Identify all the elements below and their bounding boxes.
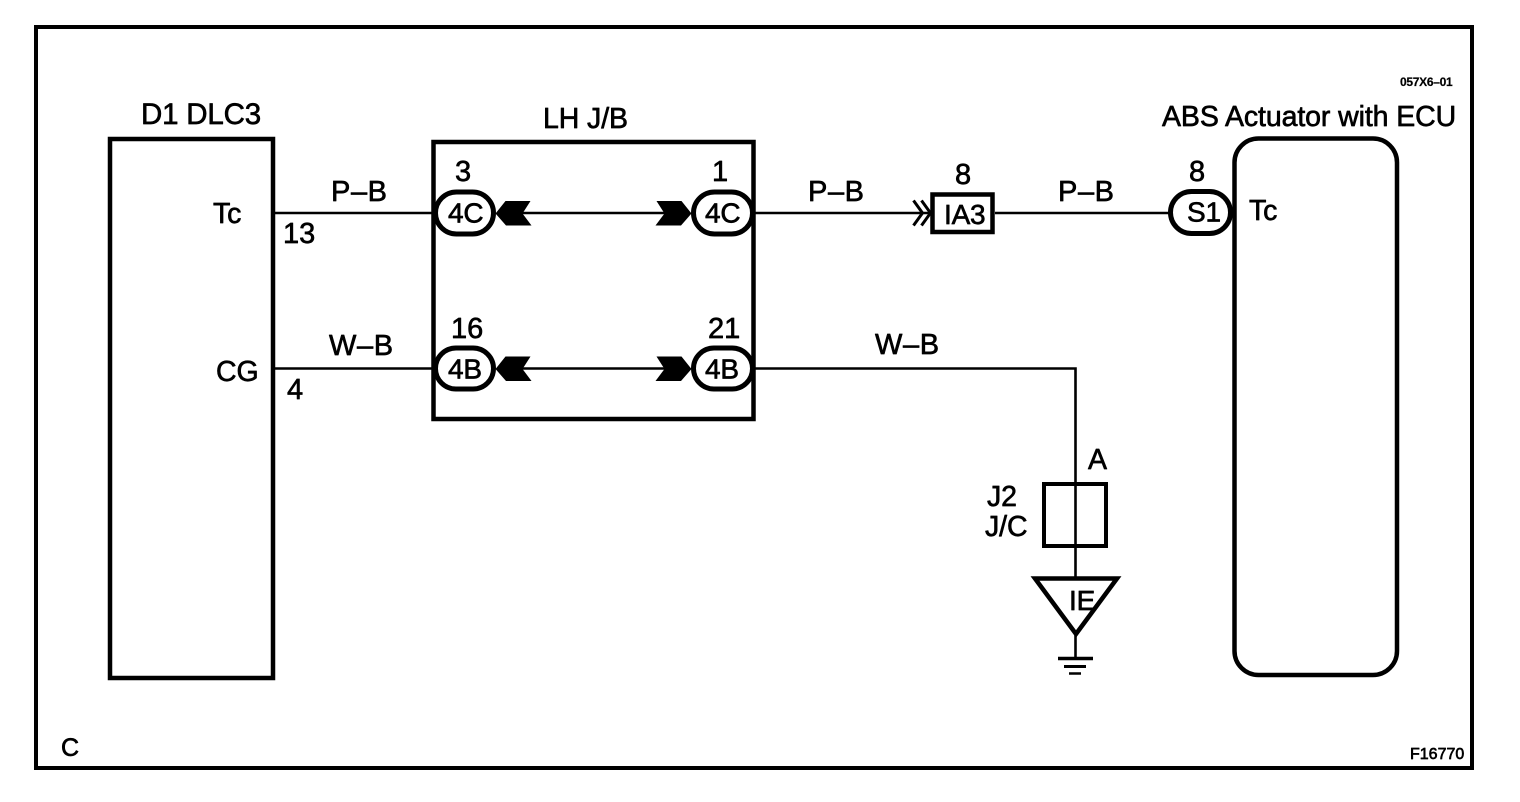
svg-text:C: C <box>61 734 79 762</box>
arrow right row 1 <box>656 201 692 226</box>
junction block LH J/B <box>434 103 754 419</box>
wire P-B from LH J/B to IA3 <box>755 212 931 215</box>
svg-text:P–B: P–B <box>1058 176 1115 208</box>
connector 4B left <box>436 348 494 389</box>
wire W-B from LH J/B to ground junction <box>755 369 1076 582</box>
svg-text:4C: 4C <box>448 198 483 229</box>
wire P-B from DLC3 pin 13 to LH J/B <box>275 212 440 215</box>
svg-text:1: 1 <box>712 156 728 188</box>
svg-text:8: 8 <box>955 159 971 191</box>
svg-text:21: 21 <box>708 313 740 345</box>
svg-text:P–B: P–B <box>331 176 388 208</box>
svg-text:CG: CG <box>216 356 259 388</box>
ground triangle IE <box>1035 579 1117 635</box>
svg-text:IE: IE <box>1069 585 1095 616</box>
connector 4B right <box>694 348 753 389</box>
connector 4C right <box>694 192 753 234</box>
arrow left row 2 <box>496 357 532 382</box>
wire W-B from DLC3 pin 4 to LH J/B <box>275 367 440 370</box>
svg-text:F16770: F16770 <box>1410 746 1464 763</box>
junction connector J2 J/C <box>985 481 1106 546</box>
connector S1 <box>1171 192 1231 234</box>
svg-text:13: 13 <box>283 218 315 250</box>
svg-text:3: 3 <box>455 156 471 188</box>
svg-text:D1 DLC3: D1 DLC3 <box>141 98 261 131</box>
svg-text:W–B: W–B <box>875 329 940 361</box>
ECU: ABS Actuator with ECU <box>1162 101 1456 675</box>
svg-text:P–B: P–B <box>808 176 865 208</box>
svg-text:4: 4 <box>287 374 303 406</box>
svg-text:J/C: J/C <box>985 511 1027 543</box>
wire P-B from IA3 to S1 <box>995 212 1170 215</box>
svg-text:IA3: IA3 <box>944 199 985 230</box>
svg-text:4B: 4B <box>448 354 482 385</box>
svg-text:J2: J2 <box>987 481 1017 513</box>
svg-text:A: A <box>1088 444 1107 476</box>
svg-text:Tc: Tc <box>1249 195 1277 227</box>
wire from triangle to ground <box>1074 632 1077 658</box>
arrow right row 2 <box>656 357 692 382</box>
svg-text:Tc: Tc <box>213 198 241 230</box>
chevron connector marker <box>914 201 931 226</box>
svg-text:W–B: W–B <box>329 330 394 362</box>
svg-text:4C: 4C <box>705 198 740 229</box>
svg-text:8: 8 <box>1189 156 1205 188</box>
internal wire row 1 <box>498 212 689 215</box>
internal wire row 2 <box>498 367 689 370</box>
svg-text:4B: 4B <box>705 354 739 385</box>
svg-text:LH J/B: LH J/B <box>543 103 628 135</box>
svg-text:057X6–01: 057X6–01 <box>1400 75 1453 89</box>
ground symbol <box>1058 659 1093 674</box>
svg-text:S1: S1 <box>1187 197 1221 228</box>
svg-text:ABS Actuator with ECU: ABS Actuator with ECU <box>1162 101 1456 133</box>
svg-text:16: 16 <box>451 313 483 345</box>
arrow left row 1 <box>496 201 532 226</box>
connector 4C left <box>436 192 494 234</box>
connector IA3 <box>933 195 993 233</box>
connector D1 DLC3 <box>110 98 273 678</box>
